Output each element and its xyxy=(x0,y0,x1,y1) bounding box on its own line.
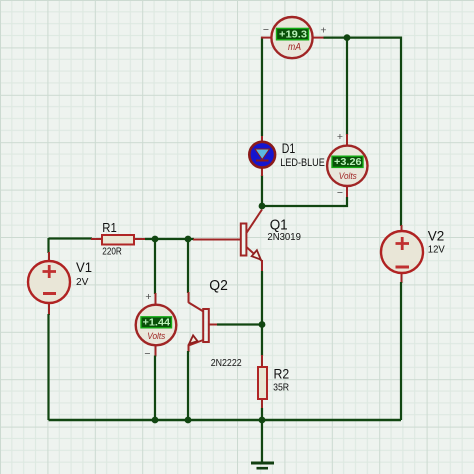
node at voltmeter U3 top on base rail xyxy=(152,236,159,243)
svg-text:Volts: Volts xyxy=(147,331,165,342)
svg-text:2V: 2V xyxy=(76,276,89,288)
wire V1 bottom lead down to ground rail xyxy=(48,303,51,420)
resistor R1 xyxy=(102,235,134,245)
svg-text:2N2222: 2N2222 xyxy=(211,357,242,369)
value label 2V xyxy=(76,276,89,288)
svg-text:Volts: Volts xyxy=(339,171,357,182)
wire voltmeter U3 top lead from base rail xyxy=(154,239,157,306)
wire V2 bottom lead down to ground rail xyxy=(400,272,403,421)
svg-text:LED-BLUE: LED-BLUE xyxy=(280,157,325,169)
voltmeter U2 minus sign xyxy=(337,187,343,199)
svg-text:+: + xyxy=(145,291,151,303)
wire Q2 collector riser from base rail xyxy=(187,239,190,303)
svg-text:−: − xyxy=(263,24,269,36)
value label 2N3019 xyxy=(267,231,301,243)
wire from ammeter left terminal down to D1 anode xyxy=(261,37,263,136)
voltmeter U2 (+3.26 Volts) xyxy=(327,146,367,186)
resistor R2 xyxy=(258,367,267,399)
wire Q2 emitter down to ground rail xyxy=(187,345,190,421)
node at Q2 emitter on ground rail xyxy=(185,417,192,424)
svg-text:+3.26: +3.26 xyxy=(334,156,362,168)
wire voltmeter U2 bottom lead to node at Q1 collector xyxy=(262,186,347,207)
svg-text:35R: 35R xyxy=(273,382,289,394)
voltmeter U3 minus sign xyxy=(144,348,150,360)
node at Q2 base / Q1 emitter / R2 top xyxy=(259,321,266,328)
node at voltmeter U3 bottom on ground rail xyxy=(152,417,159,424)
ammeter plus sign xyxy=(320,25,326,37)
label R2 xyxy=(274,367,290,382)
ammeter minus sign xyxy=(263,24,269,36)
wire from ammeter right along top to V2 branch xyxy=(324,38,402,226)
ground xyxy=(251,420,274,468)
svg-text:V1: V1 xyxy=(76,260,92,275)
svg-text:2N3019: 2N3019 xyxy=(267,231,301,243)
svg-text:+19.3: +19.3 xyxy=(279,28,307,40)
value label 2N2222 xyxy=(211,357,242,369)
transistor Q2 (2N2222, mirrored) xyxy=(189,303,209,346)
wire ammeter left pin (red) xyxy=(261,37,272,39)
svg-text:R2: R2 xyxy=(274,367,290,382)
transistor Q1 (2N3019) xyxy=(241,210,262,262)
svg-text:220R: 220R xyxy=(102,246,122,258)
svg-text:D1: D1 xyxy=(282,140,296,156)
voltmeter U2 plus sign xyxy=(337,131,343,143)
wire Q1 emitter down through node to R2 xyxy=(261,260,263,367)
node at ammeter/V2/voltmeter junction xyxy=(344,34,351,41)
svg-text:+1.44: +1.44 xyxy=(143,317,171,329)
wire R2 bottom lead to ground rail xyxy=(261,399,263,420)
svg-text:R1: R1 xyxy=(102,221,117,235)
value label 220R xyxy=(102,246,122,258)
value label LED-BLUE xyxy=(280,157,325,169)
node at R2/ground tap on ground rail xyxy=(259,417,266,424)
svg-text:+: + xyxy=(320,25,326,37)
svg-text:−: − xyxy=(144,348,150,360)
ammeter AM1 xyxy=(271,17,312,58)
wire V2 top pin (red) xyxy=(401,225,403,232)
label V2 xyxy=(428,228,445,243)
svg-text:Q2: Q2 xyxy=(209,278,228,294)
svg-text:+: + xyxy=(337,131,343,143)
node at Q2 collector riser on base rail xyxy=(185,236,192,243)
node at D1 cathode / voltmeter U2 / Q1 collector xyxy=(259,203,266,210)
wire voltmeter U3 bottom lead to ground rail xyxy=(154,345,157,421)
wire Q2 base to emitter/R2 node xyxy=(210,324,263,326)
voltmeter U3 plus sign xyxy=(145,291,151,303)
wire D1 cathode down to node xyxy=(261,167,263,206)
value label 35R xyxy=(273,382,289,394)
svg-text:mA: mA xyxy=(288,41,301,53)
value label 12V xyxy=(428,243,445,255)
label R1 xyxy=(102,221,117,235)
label D1 xyxy=(282,140,296,156)
wire V1 top lead xyxy=(47,238,50,262)
svg-text:−: − xyxy=(337,187,343,199)
label Q2 xyxy=(209,278,228,294)
wire voltmeter U2 top lead xyxy=(346,39,348,146)
battery V1 xyxy=(28,261,70,303)
svg-text:12V: 12V xyxy=(428,243,445,255)
label V1 xyxy=(76,260,92,275)
wire base rail from V1 top through R1 to Q1 base xyxy=(49,239,242,240)
voltmeter U3 (+1.44 Volts) xyxy=(136,305,177,346)
label Q1 xyxy=(270,217,288,233)
wire ammeter right pin (red) xyxy=(312,37,325,39)
battery V2 xyxy=(381,231,423,273)
svg-text:V2: V2 xyxy=(428,228,445,243)
LED D1 xyxy=(249,136,275,176)
wire bottom ground rail xyxy=(49,419,402,421)
